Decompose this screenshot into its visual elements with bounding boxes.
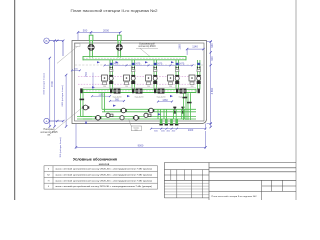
manifold flange d <box>176 89 178 94</box>
pump blob on pipe D 2 <box>144 113 151 117</box>
riser1 wall box <box>89 35 93 40</box>
manifold flange b <box>132 89 134 94</box>
wall corner notch <box>75 44 80 47</box>
leader diagonal bottom-left <box>50 105 86 135</box>
svg-text:насос сетевой центробежный нас: насос сетевой центробежный насосу 2К20-3… <box>55 174 152 177</box>
pump unit 3 <box>146 60 158 90</box>
walkway edge line <box>83 86 196 88</box>
left valve circle <box>83 105 88 110</box>
left riser flange <box>80 99 85 101</box>
manifold flange e <box>198 89 200 94</box>
outlet stub 3 <box>170 119 173 125</box>
svg-text:2К6: 2К6 <box>125 86 128 88</box>
title block <box>164 163 296 201</box>
valve vertical 1 <box>173 107 176 114</box>
suction label leader <box>136 48 158 56</box>
pump unit 5 <box>189 60 201 90</box>
suction riser 2 <box>118 41 121 58</box>
svg-text:2400: 2400 <box>188 129 194 132</box>
magenta dashed line 2 <box>78 83 196 85</box>
svg-text:1360: 1360 <box>179 44 182 50</box>
legend table <box>44 166 158 189</box>
title block fine rows <box>164 183 209 195</box>
pump unit labels <box>103 86 193 88</box>
leader diagonal top-left <box>57 46 78 63</box>
svg-text:1100: 1100 <box>98 94 104 97</box>
svg-text:насосов: насосов <box>99 162 110 166</box>
right riser flange <box>183 97 188 99</box>
pump unit 4 <box>168 60 180 90</box>
bottom dim chain <box>150 124 207 130</box>
feed vertical 2 <box>164 109 166 119</box>
svg-text:Условные обозначения: Условные обозначения <box>73 157 117 162</box>
dim 1140 <box>186 48 205 55</box>
right dimension line <box>207 40 213 128</box>
svg-text:Б: Б <box>46 39 48 43</box>
svg-text:900: 900 <box>210 56 214 61</box>
svg-text:940: 940 <box>210 43 214 48</box>
title block header cells <box>171 170 203 198</box>
pump blob on pipe D 1 <box>106 113 113 117</box>
suction riser 1 <box>90 41 93 58</box>
feed vertical 4 <box>182 109 185 119</box>
inner dim 1100 <box>91 95 111 97</box>
axis marker B <box>44 38 65 56</box>
lower pipe D <box>77 117 196 120</box>
svg-text:1470: 1470 <box>179 62 185 65</box>
svg-text:2400 (габарит блока): 2400 (габарит блока) <box>62 85 64 107</box>
svg-text:500: 500 <box>83 28 88 32</box>
svg-text:1470: 1470 <box>135 62 141 65</box>
svg-text:4 890: 4 890 <box>210 87 214 94</box>
outlet stub 2 <box>165 119 168 125</box>
inner dim 900 <box>109 100 125 102</box>
svg-text:2К6: 2К6 <box>169 86 172 88</box>
outlet stub 4 <box>175 119 178 125</box>
manifold valve 4 <box>180 89 186 94</box>
svg-text:Всасывающий: Всасывающий <box>139 42 155 45</box>
riser1 pump flange circle <box>88 44 94 50</box>
inner dim row 1470 <box>104 64 194 66</box>
manifold flange a <box>110 89 112 94</box>
svg-text:1140: 1140 <box>192 45 198 49</box>
svg-text:2К6: 2К6 <box>191 86 194 88</box>
svg-text:2000: 2000 <box>103 28 109 32</box>
svg-text:1360: 1360 <box>162 99 168 102</box>
discharge manifold centerline <box>83 90 196 92</box>
manifold end flange <box>80 88 82 93</box>
svg-text:насос сетевой центробежный нас: насос сетевой центробежный насосу 2К20-3… <box>55 179 152 182</box>
valve on pipe D 3 <box>120 116 124 120</box>
manifold valve 2 <box>136 89 142 94</box>
valve vertical 2 <box>181 107 184 114</box>
svg-text:300 (габарит блока): 300 (габарит блока) <box>60 137 62 157</box>
manifold valve 3 <box>158 89 164 94</box>
svg-text:2К6: 2К6 <box>103 86 106 88</box>
building outer wall <box>72 41 207 124</box>
centerline dashed <box>75 64 203 66</box>
svg-text:2К6: 2К6 <box>147 86 150 88</box>
building inner wall <box>75 43 205 121</box>
feed vertical 3 <box>174 109 177 119</box>
manifold flange c <box>154 89 156 94</box>
svg-text:кол.: кол. <box>135 129 139 131</box>
flow arrows blue <box>85 61 174 123</box>
svg-text:План насосной станции II-го по: План насосной станции II-го подъема №2 <box>71 9 158 13</box>
frame left border <box>14 0 16 200</box>
svg-text:900: 900 <box>115 98 120 101</box>
feed vertical 1 <box>158 109 160 119</box>
axis marker A <box>44 118 65 123</box>
svg-text:А: А <box>45 119 47 123</box>
svg-text:коллектор Ø219: коллектор Ø219 <box>138 46 156 48</box>
inner dim 1360 right <box>157 101 173 103</box>
note box <box>131 126 141 131</box>
suction manifold <box>83 56 186 60</box>
inner vertical dim line <box>92 73 94 91</box>
svg-text:1500 (габарит блока): 1500 (габарит блока) <box>44 73 46 95</box>
svg-text:1500: 1500 <box>86 71 88 77</box>
title block right grid <box>262 180 296 200</box>
riser2 wall box <box>118 35 122 40</box>
svg-text:9700: 9700 <box>50 81 54 87</box>
pump unit 1 <box>102 60 114 90</box>
svg-text:насос сетевой центробежный нас: насос сетевой центробежный насосу 2К20-3… <box>55 185 152 188</box>
lower pipe C <box>102 93 196 112</box>
svg-text:План насосной станции II-го по: План насосной станции II-го подъема №2 <box>212 195 258 198</box>
svg-text:коллектор Ø325: коллектор Ø325 <box>40 132 58 134</box>
overall dim 9000 <box>75 124 207 149</box>
right riser pair <box>184 93 191 120</box>
valve on pipe D 2 <box>134 115 139 120</box>
svg-text:Напорный: Напорный <box>44 128 56 131</box>
magenta dashed line 1 <box>78 75 196 77</box>
discharge manifold <box>83 89 196 93</box>
svg-text:насос сетевой центробежный нас: насос сетевой центробежный насосу 2К20-3… <box>55 168 152 171</box>
svg-text:Задв.Ду150: Задв.Ду150 <box>134 97 143 99</box>
left dimension lines <box>49 40 68 128</box>
svg-text:1470: 1470 <box>157 62 163 65</box>
frame right border <box>295 0 297 200</box>
left riser down <box>81 93 93 119</box>
valve on pipe D 1 <box>96 115 101 120</box>
valve on pipe C 1 <box>121 108 126 113</box>
manifold valve 1 <box>114 89 120 94</box>
pump unit 2 <box>124 60 136 90</box>
valve on pipe C 2 <box>149 108 154 113</box>
riser2 pump flange circle <box>116 44 122 50</box>
svg-text:9000: 9000 <box>138 143 144 147</box>
top dimension line <box>77 31 122 40</box>
outlet stub 1 <box>159 119 162 125</box>
svg-text:см.: см. <box>47 135 51 137</box>
suction manifold centerline <box>83 57 186 59</box>
